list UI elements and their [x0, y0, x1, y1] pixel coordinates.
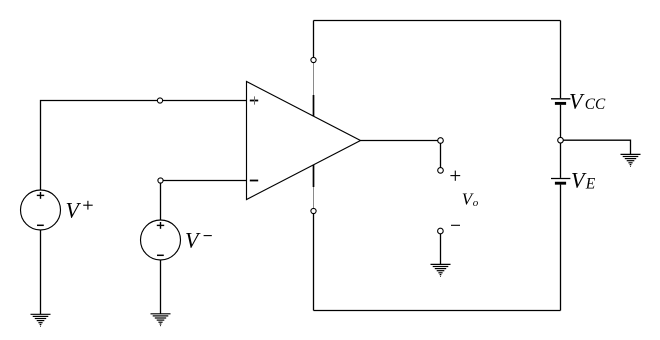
svg-text:o: o: [473, 197, 479, 209]
op-amp noninverting input plus sign: [250, 96, 258, 104]
node: inverting input terminal: [158, 178, 163, 183]
ground: under V+ source: [31, 314, 51, 326]
wire: bottom supply rail: [314, 310, 561, 312]
wire: top supply rail: [314, 20, 561, 22]
wire: op-amp output to output terminal: [361, 140, 438, 142]
wire: V+ source to ground: [40, 231, 42, 315]
label: Vo minus sign: [451, 224, 460, 226]
op-amp U1 triangle: [247, 82, 361, 200]
label VE: [571, 168, 596, 193]
svg-text:E: E: [585, 176, 596, 193]
source V+ (circle symbol): [21, 190, 61, 230]
ground: under V- source: [151, 314, 171, 326]
wire: VCC battery to node A: [560, 105, 562, 140]
op-amp inverting input minus sign: [250, 180, 258, 182]
wire: node A to right ground: [563, 140, 631, 154]
label V+: [66, 198, 93, 223]
node: Vo plus terminal: [438, 168, 444, 174]
source V- (circle symbol): [141, 220, 181, 260]
node: Vo minus terminal: [438, 228, 444, 234]
wire: V- source node to inverting input: [163, 180, 246, 182]
wire: op-amp V- supply node down to bottom rail: [313, 214, 315, 311]
op-amp positive supply pin: thick stub: [313, 95, 315, 116]
wire: Vo minus terminal to ground: [440, 234, 442, 264]
svg-text:CC: CC: [585, 96, 606, 113]
label Vo: [462, 189, 479, 209]
wire: output terminal to Vo plus terminal: [440, 143, 442, 168]
node: op-amp negative supply terminal: [311, 208, 316, 213]
label: Vo plus sign: [450, 171, 460, 181]
wire: node A to VE battery: [560, 143, 562, 178]
wire: top rail down to op-amp V+ supply node: [313, 21, 315, 58]
wire: V- node down to V- source: [160, 183, 162, 220]
wire: right rail from top to VCC battery: [560, 21, 562, 99]
label VCC: [569, 88, 606, 113]
node: op-amp positive supply terminal: [311, 57, 316, 62]
battery VE: [551, 179, 570, 184]
battery VCC: [551, 99, 570, 104]
op-amp positive supply pin: thin lead: [313, 62, 315, 95]
label V-: [185, 228, 212, 253]
wire: V- source to ground: [160, 261, 162, 314]
ground: under Vo minus terminal: [431, 264, 451, 276]
op-amp negative supply pin: thin lead: [313, 187, 315, 209]
wire: VE battery down to bottom rail: [560, 185, 562, 311]
ground: right supply midpoint: [621, 154, 641, 166]
wire: V+ source up and right to noninverting input: [41, 101, 247, 190]
node: output terminal: [438, 138, 444, 144]
node A: supply midpoint: [558, 137, 564, 143]
node: noninverting input terminal: [157, 98, 162, 103]
op-amp negative supply pin: thick stub: [313, 165, 315, 187]
